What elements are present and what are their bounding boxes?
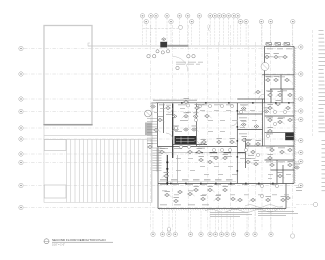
note text line [198, 61, 203, 64]
leader note text [258, 212, 298, 215]
keynote diamond D42 [285, 78, 290, 81]
keynote diamond D28 [223, 156, 228, 159]
keynote diamond D14 [160, 150, 165, 153]
keynote diamond D24 [202, 140, 207, 143]
wavy demolition line [205, 209, 277, 212]
keynote diamond D18 [205, 114, 210, 117]
keynote diamond D20 [241, 123, 246, 126]
keynote diamond D19 [241, 107, 246, 110]
column callout circle [145, 110, 152, 117]
wall: west wall lower [157, 147, 159, 209]
wall: east rooms wall y146 [246, 145, 295, 147]
top grid bubble stems [143, 18, 293, 45]
keynote diamond D23 [242, 138, 247, 141]
right margin dimension ticks [319, 30, 325, 132]
keynote circle [192, 55, 195, 58]
wall: east rooms wall y129 [237, 129, 262, 131]
keynote circle K21 [220, 104, 223, 107]
keynote diamond D61 [266, 198, 271, 201]
bottom grid bubbles [151, 227, 273, 237]
jambs on east wall x237 [237, 110, 239, 172]
wall: corridor wall y182 [158, 183, 294, 185]
keynote diamond D73 [295, 166, 300, 169]
wall: east wall x245 [245, 138, 247, 168]
wall: mid wall y146 [158, 146, 238, 148]
west stair ladder [147, 119, 157, 144]
wall hatch ticks right exterior [294, 48, 295, 184]
keynote diamond D64 [164, 174, 169, 177]
room label row [153, 99, 197, 102]
wall: south exterior wall [158, 208, 286, 210]
keynote diamond D38 [274, 55, 279, 58]
keynote diamond D33 [251, 150, 256, 153]
dark roof equipment box [160, 42, 167, 48]
keynote circle [187, 55, 190, 58]
wall: NE vert x271 [270, 89, 272, 103]
wall: east rooms wall y160 [265, 159, 295, 161]
keynote circle K5 [228, 148, 231, 151]
note text line [176, 63, 185, 66]
east dark block [285, 133, 294, 140]
keynote diamond D52 [268, 129, 273, 132]
light wall x264.5 [264, 103, 266, 146]
keynote diamond D57 [270, 163, 275, 166]
keynote circle K19 [198, 104, 201, 107]
heavy wall x172.7 [172, 104, 174, 159]
keynote diamond D65 [174, 199, 179, 202]
keynote diamond D47 [276, 102, 281, 105]
keynote diamond D45 [288, 93, 293, 96]
keynote diamond D39 [283, 55, 288, 58]
leader note text [210, 211, 248, 214]
keynote diamond D16 [184, 115, 189, 118]
thick gray roof bar [167, 45, 188, 47]
wall: NE lower wall [270, 88, 294, 90]
keynote diamond D29 [199, 158, 204, 161]
keynote diamond D5 [195, 106, 200, 109]
keynote circle K2 [187, 145, 190, 148]
wall: room wall x196 [196, 104, 198, 147]
keynote diamond D51 [288, 118, 293, 121]
wall: NE mid wall [262, 74, 294, 76]
wall: SE room wall x283 [282, 165, 284, 184]
keynote diamond D50 [278, 120, 283, 123]
squiggle mark [208, 25, 209, 32]
extra text marks [154, 57, 291, 196]
horizontal grid lines [24, 49, 313, 208]
keynote circle [153, 55, 156, 58]
dark roof parapet line [43, 124, 92, 126]
wall: NE vert x282 [281, 89, 283, 103]
keynote diamond D11 [201, 141, 206, 144]
keynote diamond D48 [286, 106, 291, 109]
corridor wall with openings y152.5 [196, 152, 246, 154]
top callout dashed line [143, 27, 178, 29]
keynote diamond D3 [166, 106, 171, 109]
keynote diamond D63 [286, 196, 291, 199]
keynote circle K11 [256, 153, 259, 156]
keynote circle [147, 55, 150, 58]
keynote diamond D36 [256, 90, 261, 93]
keynote diamond D62 [281, 198, 286, 201]
keynote diamond D7 [148, 145, 153, 148]
wall: west wall upper b [157, 103, 159, 147]
keynote diamond D40 [266, 78, 271, 81]
wall: NE west wall [264, 47, 266, 104]
keynote diamond D2 [158, 118, 163, 121]
keynote diamond D60 [251, 198, 256, 201]
wall: SE corner wall [285, 184, 287, 209]
wall: east corridor north wall [237, 98, 265, 100]
keynote diamond D34 [246, 160, 251, 163]
keynote diamond D68 [216, 197, 221, 200]
keynote circle K18 [260, 194, 263, 197]
keynote circle [166, 50, 169, 53]
keynote diamond D15 [172, 115, 177, 118]
wall: east rooms wall y116r [265, 115, 295, 117]
leader note text [210, 213, 252, 216]
keynote circle [176, 66, 179, 69]
corridor dimension string [160, 178, 233, 181]
svg-text:1/16" = 1'-0": 1/16" = 1'-0" [52, 244, 65, 247]
keynote circle K7 [194, 118, 197, 121]
wall: NE room divider [280, 75, 282, 89]
keynote diamond D75 [178, 190, 183, 193]
keynote diamond D56 [268, 156, 273, 159]
keynote diamond D13 [197, 150, 202, 153]
vertical grid lines [150, 25, 292, 233]
keynote diamond D59 [288, 163, 293, 166]
leader arc [173, 57, 188, 72]
keynote diamond D31 [246, 142, 251, 145]
keynote diamond D32 [256, 142, 261, 145]
keynote diamond D35 [254, 162, 259, 165]
keynote diamond D37 [265, 55, 270, 58]
keynote circle K13 [283, 110, 286, 113]
keynote diamond D22 [264, 110, 269, 113]
keynote circle K9 [239, 110, 242, 113]
leader note text [210, 215, 240, 218]
door jambs north wall [181, 102, 290, 104]
note text line [188, 61, 196, 64]
keynote circle K17 [275, 184, 278, 187]
keynote circle [156, 50, 159, 53]
note text line [187, 63, 194, 66]
interior door arcs [166, 94, 265, 147]
south stair ladder [153, 148, 162, 171]
keynote circle K6 [186, 104, 189, 107]
wall: east rooms wall y132r [265, 131, 295, 133]
left grid bubbles [19, 46, 23, 209]
roof edge line across top of plan [88, 45, 265, 47]
keynote diamond D8 [174, 128, 179, 131]
keynote diamond above equipment [162, 38, 166, 41]
wall: SE room wall x277 [276, 160, 278, 184]
keynote circle K14 [273, 122, 276, 125]
keynote diamond D27 [214, 156, 219, 159]
wall: NE top wall [265, 45, 295, 47]
keynote circle K8 [174, 126, 177, 129]
keynote circle [161, 51, 164, 54]
keynote diamond D30 [208, 160, 213, 163]
keynote diamond D55 [288, 148, 293, 151]
keynote diamond D10 [192, 128, 197, 131]
keynote diamond D9 [184, 128, 189, 131]
wall: room wall x163 [163, 104, 165, 134]
note text line [196, 63, 200, 66]
wall: east wall x262 [262, 99, 264, 146]
keynote circle K1 [179, 145, 182, 148]
keynote diamond D17 [193, 115, 198, 118]
service boxes in roof [44, 140, 66, 199]
top grid bubbles [140, 14, 295, 24]
wall: SE room wall y170 [271, 169, 295, 171]
keynote diamond D6 [154, 128, 159, 131]
keynote diamond D1 [151, 105, 156, 108]
keynote circle K22 [230, 104, 233, 107]
keynote diamond D12 [188, 150, 193, 153]
keynote circle K12 [273, 110, 276, 113]
keynote diamond D44 [278, 93, 283, 96]
keynote diamond D21 [254, 125, 259, 128]
keynote diamond D66 [188, 192, 193, 195]
keynote diamond D53 [270, 148, 275, 151]
keynote diamond D25 [217, 140, 222, 143]
title bubble [44, 238, 113, 247]
keynote diamond D58 [278, 174, 283, 177]
keynote circle K16 [260, 184, 263, 187]
wall hatch ticks south [159, 209, 285, 210]
keynote diamond D72 [238, 198, 243, 201]
keynote diamond D43 [268, 93, 273, 96]
roof upper rectangle [44, 26, 92, 125]
keynote diamond D49 [268, 118, 273, 121]
small text marks [159, 49, 302, 206]
keynote circle K4 [220, 148, 223, 151]
right margin dimension line [312, 30, 314, 136]
roof lower boundary lines [44, 125, 152, 203]
keynote diamond D4 [184, 100, 189, 103]
note text line [176, 61, 186, 64]
keynote diamond D76 [194, 188, 199, 191]
top callout circle [179, 25, 183, 29]
leader note text [258, 214, 286, 217]
wall: mid wall y144 right [173, 143, 207, 145]
door jambs corridor [170, 183, 274, 185]
heavy wall x167.3 [166, 155, 168, 185]
keynote circle K15 [266, 134, 269, 137]
keynote diamond D46 [268, 106, 273, 109]
stair dark block [175, 136, 197, 144]
window symbols on NE top wall [266, 43, 290, 45]
light wall x177.5 [177, 155, 179, 184]
bottom grid bubble stems [153, 211, 271, 232]
svg-text:SECOND FLOOR DEMOLITION PLAN: SECOND FLOOR DEMOLITION PLAN [52, 238, 106, 242]
wall: north wall of main wing [152, 102, 294, 104]
wall hatch ticks top NE [266, 44, 294, 45]
leader note text [258, 210, 294, 213]
keynote diamond D54 [280, 150, 285, 153]
wall: east rooms wall y114 [237, 113, 262, 115]
roof hatch vertical lines [67, 140, 152, 203]
wavy line above south wall [245, 205, 283, 208]
column callout circle NE [261, 63, 269, 71]
keynote circle K3 [212, 148, 215, 151]
keynote diamond D71 [223, 188, 228, 191]
keynote circle K20 [208, 104, 211, 107]
keynote diamond D67 [201, 197, 206, 200]
keynote diamond D69 [231, 197, 236, 200]
keynote diamond D41 [274, 78, 279, 81]
keynote diamond D74 [165, 193, 170, 196]
light west edge x152 [151, 103, 153, 147]
wall: center wall x237 [236, 103, 238, 184]
right grid bubbles [290, 45, 317, 238]
keynote circle K10 [244, 148, 247, 151]
keynote diamond D70 [208, 188, 213, 191]
west gray block [145, 123, 152, 136]
keynote diamond D26 [230, 140, 235, 143]
keynote leader marks [148, 53, 300, 198]
wall: right exterior wall [293, 46, 295, 183]
